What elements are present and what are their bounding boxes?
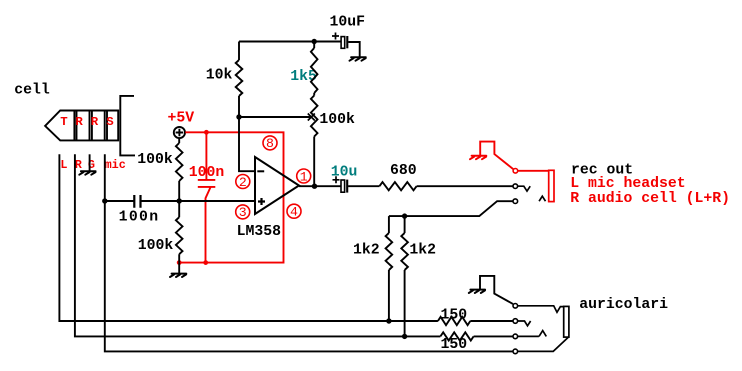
ground 10uF (350, 57, 366, 60)
wire L to bottom rail (59, 154, 438, 321)
svg-text:100k: 100k (319, 112, 355, 128)
power symbol +5V (174, 127, 185, 138)
svg-text:10u: 10u (331, 165, 358, 181)
resistor 680 (379, 182, 416, 190)
junction red rail/gnd (177, 260, 182, 265)
wire output (299, 185, 341, 187)
plus input mark (258, 198, 265, 205)
pin 3 (236, 205, 250, 219)
auricolari jack hanger (480, 276, 513, 304)
potentiometer 100k (313, 93, 315, 96)
wire 10uF to ground (348, 42, 360, 57)
svg-text:R audio cell (L+R): R audio cell (L+R) (570, 191, 730, 207)
jack body rec out (red) (549, 170, 554, 201)
contact R (513, 334, 518, 339)
svg-text:cell: cell (14, 83, 50, 99)
resistor 100k upper bias (178, 138, 180, 143)
capacitor 10u polarized (341, 180, 345, 192)
svg-text:150: 150 (441, 307, 468, 323)
svg-text:1k5: 1k5 (290, 69, 317, 85)
wire mic to bottom rail (105, 154, 513, 351)
svg-text:100k: 100k (138, 238, 174, 254)
resistor 1k2 left (388, 216, 390, 233)
svg-text:+5V: +5V (168, 110, 195, 126)
red rail +5V pin8 pin4 (179, 132, 283, 262)
svg-text:10k: 10k (206, 67, 233, 83)
wire ring contact to 1k2 pair (389, 201, 513, 216)
contact spring v (518, 321, 531, 326)
jack body auricolari (564, 306, 569, 337)
pin 4 (287, 204, 301, 218)
ground rec out sleeve (red) (470, 156, 486, 159)
pin 2 (236, 175, 250, 189)
pin 8 (263, 136, 277, 150)
junction feedback node (236, 114, 241, 119)
svg-text:S: S (106, 115, 114, 129)
svg-text:100k: 100k (137, 152, 173, 168)
junction top rail/1k5 (312, 39, 317, 44)
junction 1k2 right (402, 213, 407, 218)
capacitor 10uF polarized (341, 37, 345, 49)
svg-text:1: 1 (300, 169, 308, 184)
svg-text:1k2: 1k2 (409, 242, 436, 258)
contact sleeve (513, 304, 518, 309)
contact sleeve red (513, 169, 518, 174)
contact spring caret (518, 331, 547, 337)
plus mark 10u (333, 176, 340, 183)
wire 100n to pin 3 (141, 200, 256, 202)
svg-text:LM358: LM358 (237, 224, 282, 240)
connector J1 TRRS plug (cell) (45, 111, 118, 141)
svg-text:10uF: 10uF (330, 15, 366, 31)
wire top rail (239, 41, 341, 43)
wire 150 to phones L contact (470, 320, 513, 322)
wire 680 to rec out tip (417, 185, 513, 187)
svg-text:R: R (91, 115, 99, 129)
resistor 1k5 (313, 42, 315, 49)
contact mic tip (513, 349, 518, 354)
svg-text:L mic headset: L mic headset (570, 176, 685, 192)
contact spring v (518, 186, 531, 191)
wire 10u to 680 (348, 185, 379, 187)
resistor 10k (238, 42, 240, 61)
capacitor 100n input (134, 195, 140, 208)
contact ring (R) (513, 199, 518, 204)
contact spring caret (539, 196, 545, 201)
wire 150 to phones R contact (474, 335, 513, 337)
svg-text:R: R (75, 115, 83, 129)
wiper arrowhead (308, 114, 315, 121)
wire R to bottom rail (75, 154, 441, 336)
svg-text:T: T (60, 115, 68, 129)
resistor 100k lower bias (178, 201, 180, 217)
capacitor 100n decoupling (red) (198, 132, 216, 262)
wire mic node to 100n (105, 200, 135, 202)
wire sleeve to jack body red (518, 170, 549, 172)
svg-text:2: 2 (239, 175, 247, 190)
svg-text:1k2: 1k2 (353, 242, 380, 258)
svg-text:100n: 100n (189, 165, 225, 181)
junction 1k2 right / wire R (402, 334, 407, 339)
svg-text:100n: 100n (119, 209, 160, 225)
svg-text:3: 3 (239, 205, 247, 220)
svg-text:mic: mic (105, 158, 126, 172)
resistor 150 top (438, 317, 470, 325)
junction red rail/100n bottom (203, 260, 208, 265)
wire mic contact to jack tip (518, 337, 569, 351)
plug terminal bracket (120, 96, 135, 155)
junction output node (312, 184, 317, 189)
plus mark 10uF (332, 33, 339, 40)
junction mic/100n (102, 198, 107, 203)
wire G stub (89, 154, 91, 171)
ground auricolari sleeve (469, 290, 485, 293)
svg-text:4: 4 (290, 205, 298, 220)
resistor 1k2 right (404, 216, 406, 233)
contact L (513, 319, 518, 324)
minus input mark (257, 170, 264, 172)
contact tip (L) (513, 184, 518, 189)
junction bias node (177, 198, 182, 203)
svg-text:auricolari: auricolari (579, 297, 668, 313)
pin 1 (297, 169, 311, 183)
svg-text:8: 8 (266, 136, 274, 151)
ground G of plug (79, 171, 95, 174)
ground bias divider (178, 263, 180, 274)
svg-text:680: 680 (390, 163, 417, 179)
wire 10k to pin 2 (239, 96, 255, 171)
svg-text:L: L (60, 158, 67, 172)
wire pot to output node (313, 137, 315, 187)
wire sleeve to jack body (518, 306, 564, 313)
junction red rail/100n (204, 130, 209, 135)
op-amp U1 LM358 (255, 157, 299, 214)
wire wiper arm (239, 116, 312, 118)
resistor 150 bottom (440, 332, 473, 340)
svg-text:R: R (75, 158, 83, 172)
rec out jack hanger (red) (480, 142, 513, 170)
junction 1k2 left / wire L (386, 318, 391, 323)
